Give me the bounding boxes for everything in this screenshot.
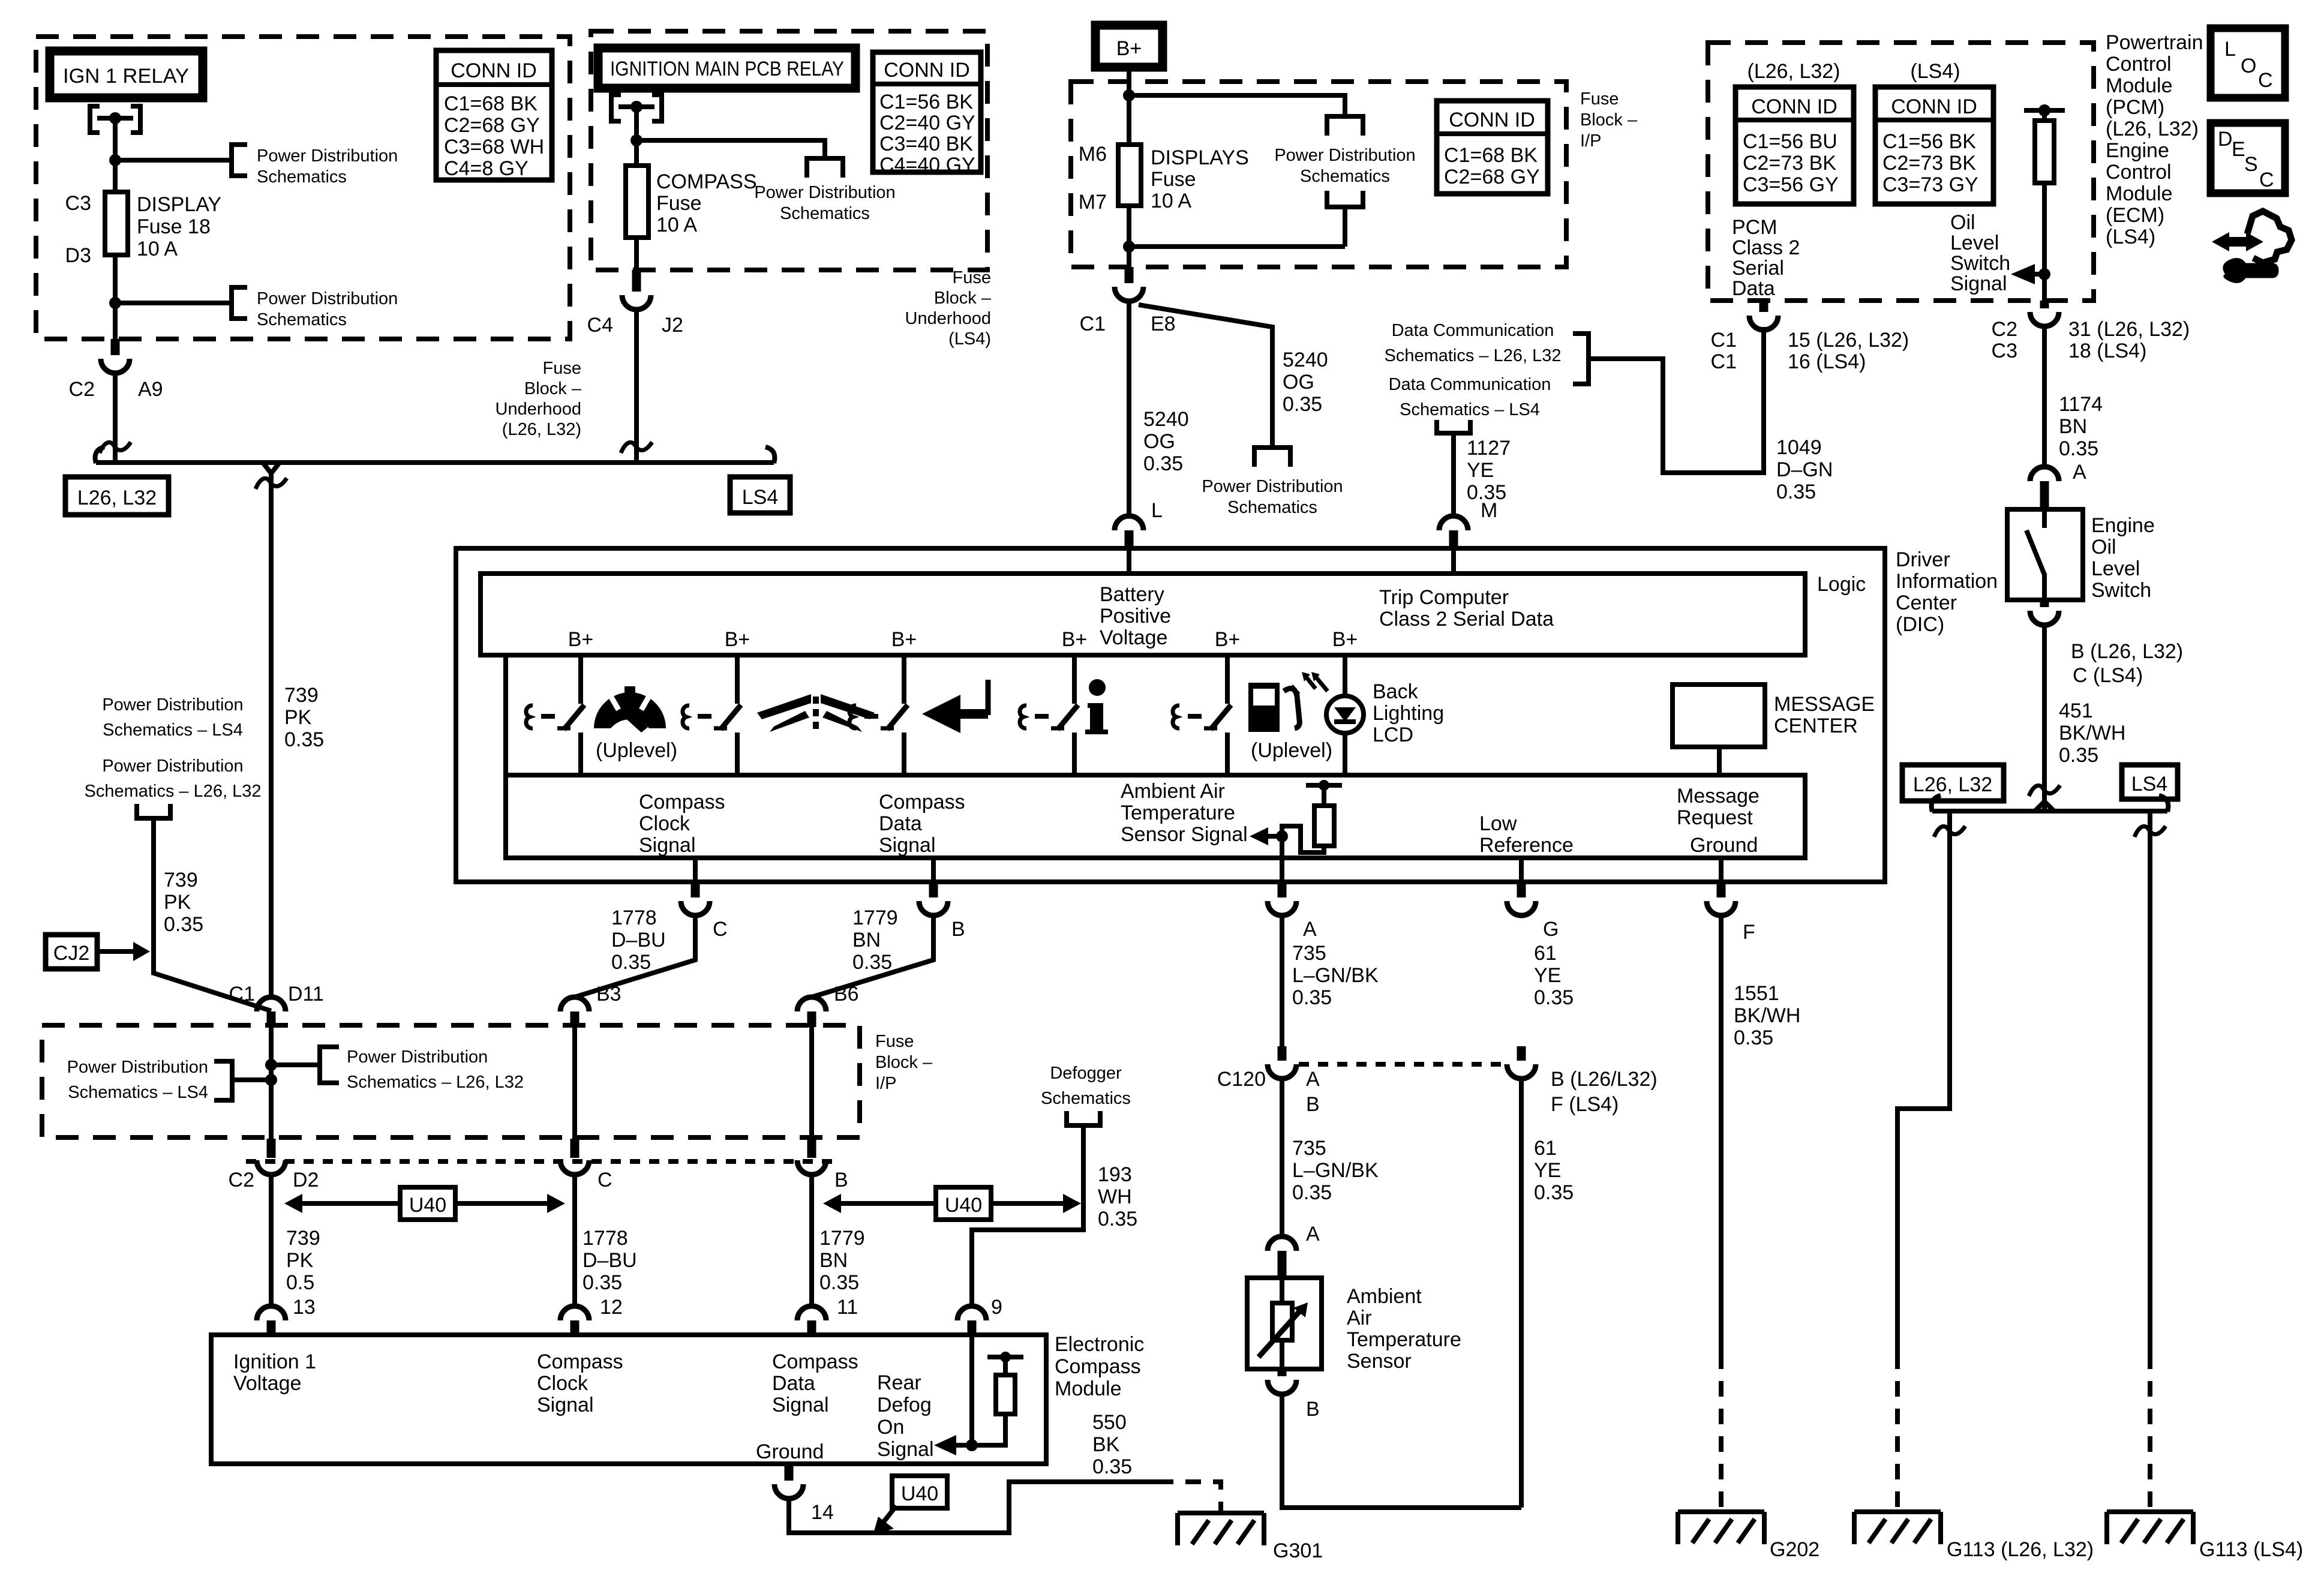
node [265, 1059, 277, 1071]
svg-text:Power Distribution: Power Distribution [257, 146, 398, 166]
wire pin 9 inside module [969, 1337, 974, 1445]
DIC pin G [1519, 858, 1524, 882]
node [265, 1074, 277, 1086]
svg-text:0.35: 0.35 [1143, 452, 1183, 475]
page ref bracket [320, 1047, 339, 1083]
svg-text:(L26, L32): (L26, L32) [1747, 60, 1840, 83]
svg-text:Compass: Compass [537, 1350, 623, 1373]
wire [634, 107, 639, 166]
svg-text:B: B [951, 918, 965, 941]
page ref bracket down [1254, 448, 1290, 467]
svg-text:Request: Request [1677, 806, 1753, 829]
svg-text:B+: B+ [568, 628, 594, 651]
svg-text:0.35: 0.35 [1283, 393, 1322, 416]
wire [634, 238, 639, 270]
wire sensor return loop [1282, 1394, 1521, 1508]
page ref bracket [214, 1061, 232, 1100]
svg-text:Data: Data [772, 1372, 815, 1395]
svg-text:B+: B+ [1062, 628, 1088, 651]
wire 1127 YE 0.35 [1451, 433, 1456, 516]
svg-text:Level: Level [2091, 557, 2140, 580]
svg-text:Rear: Rear [877, 1371, 921, 1394]
svg-text:CONN ID: CONN ID [1449, 109, 1535, 131]
svg-text:Ambient: Ambient [1347, 1285, 1422, 1308]
svg-text:B+: B+ [1116, 37, 1142, 60]
svg-text:0.35: 0.35 [1098, 1208, 1137, 1230]
svg-text:0.35: 0.35 [1092, 1455, 1132, 1478]
svg-text:CONN ID: CONN ID [1751, 95, 1837, 118]
svg-text:D2: D2 [293, 1169, 319, 1191]
fuse COMPASS [626, 166, 648, 238]
svg-text:Switch: Switch [2091, 579, 2151, 602]
fuse F18 DISPLAY [105, 192, 128, 255]
wire branch to power distribution 2 [115, 301, 230, 305]
wire 1551 to G202 [1719, 915, 1724, 1353]
svg-text:0.35: 0.35 [1776, 481, 1816, 503]
page ref bracket down [807, 158, 843, 178]
svg-text:C: C [713, 918, 728, 941]
svg-text:Signal: Signal [772, 1394, 829, 1416]
svg-text:(Uplevel): (Uplevel) [596, 739, 677, 762]
connector C1/D11 [257, 997, 286, 1011]
svg-text:Schematics – L26, L32: Schematics – L26, L32 [1384, 346, 1561, 365]
svg-text:Power Distribution: Power Distribution [1202, 477, 1343, 496]
svg-text:Signal: Signal [879, 834, 936, 857]
wire branch to power distribution [115, 158, 230, 163]
svg-text:C2=73 BK: C2=73 BK [1882, 152, 1976, 175]
wires through I/P block [271, 1027, 812, 1139]
wire 739 PK 0.35 main [269, 473, 274, 998]
svg-text:Compass: Compass [772, 1350, 858, 1373]
turn arrow icon [922, 680, 988, 733]
wire branch to power distribution [1129, 95, 1345, 115]
svg-text:5240: 5240 [1283, 349, 1328, 371]
wire branch right [271, 1062, 319, 1067]
merge chevron [263, 463, 280, 473]
svg-text:1551: 1551 [1734, 982, 1779, 1005]
svg-text:Ground: Ground [1690, 834, 1758, 857]
svg-text:1779: 1779 [819, 1227, 865, 1250]
svg-text:Voltage: Voltage [233, 1372, 301, 1395]
DIC pin label band box [506, 775, 1805, 858]
svg-text:12: 12 [600, 1296, 623, 1319]
wire oil level switch signal [2042, 183, 2047, 301]
svg-text:Trip Computer: Trip Computer [1379, 586, 1509, 609]
svg-text:Clock: Clock [537, 1372, 588, 1395]
connector pin B [807, 1139, 816, 1158]
svg-text:C3=40 BK: C3=40 BK [879, 133, 973, 155]
svg-text:1049: 1049 [1776, 436, 1822, 459]
wire break mark [100, 442, 131, 453]
U40 arrow 2 [823, 1194, 1081, 1213]
ignition main pcb relay dashed box [591, 31, 987, 270]
rear defog pullup resistor [972, 1352, 1023, 1445]
connector C2 pin A9 [111, 339, 120, 355]
DIC pin F [1719, 858, 1724, 882]
node [630, 134, 642, 146]
svg-text:A: A [1303, 918, 1317, 941]
svg-text:WH: WH [1098, 1185, 1132, 1208]
connector C2/C3 pins 31/18 [2040, 301, 2049, 308]
DIC pin A [1280, 858, 1284, 882]
svg-text:0.35: 0.35 [2059, 744, 2098, 767]
svg-text:0.35: 0.35 [1734, 1026, 1773, 1049]
svg-text:C1=56 BU: C1=56 BU [1743, 130, 1837, 153]
svg-text:C2: C2 [69, 378, 95, 401]
wire 735 L-GN/BK 0.35 [1280, 1079, 1284, 1236]
svg-text:Underhood: Underhood [905, 309, 992, 328]
page ref bracket right pair [1573, 334, 1589, 384]
wire [113, 373, 118, 463]
svg-text:0.35: 0.35 [1292, 1181, 1332, 1204]
svg-text:E8: E8 [1151, 313, 1176, 335]
svg-text:61: 61 [1534, 1137, 1557, 1160]
conn id table PCM L26 [1736, 87, 1854, 204]
ground G202 [1678, 1512, 1764, 1544]
oil level signal arrow [2011, 264, 2035, 284]
svg-text:YE: YE [1534, 964, 1561, 987]
svg-text:1778: 1778 [582, 1227, 628, 1250]
svg-text:Fuse: Fuse [543, 359, 581, 378]
node junction1 [109, 154, 121, 166]
svg-text:Module: Module [2106, 182, 2173, 205]
svg-text:Fuse: Fuse [656, 192, 702, 215]
svg-text:Sensor Signal: Sensor Signal [1121, 823, 1248, 846]
svg-text:Schematics: Schematics [1041, 1089, 1131, 1108]
connector B3 [560, 997, 589, 1011]
info icon [1085, 679, 1108, 734]
svg-text:Data: Data [879, 812, 922, 835]
svg-text:Schematics: Schematics [780, 204, 870, 223]
svg-text:B3: B3 [596, 983, 621, 1005]
wire return branch [1129, 207, 1345, 247]
svg-text:YE: YE [1534, 1159, 1561, 1182]
wire B to B6 [812, 915, 933, 997]
svg-text:Block –: Block – [524, 379, 582, 398]
connector C4 pin J2 [632, 270, 641, 292]
svg-text:Ambient Air: Ambient Air [1121, 780, 1225, 803]
svg-text:BK/WH: BK/WH [1734, 1004, 1800, 1027]
svg-text:13: 13 [293, 1296, 316, 1319]
dashed lead to G301 [1158, 1482, 1221, 1513]
svg-text:Temperature: Temperature [1121, 801, 1235, 824]
svg-text:Schematics – L26, L32: Schematics – L26, L32 [347, 1073, 524, 1092]
svg-text:Compass: Compass [879, 791, 965, 813]
node [1123, 241, 1135, 253]
relay K-main contact [611, 95, 662, 121]
switch S5 [1173, 656, 1231, 776]
switch S3 [849, 656, 908, 776]
svg-text:Control: Control [2106, 161, 2172, 184]
svg-text:193: 193 [1098, 1163, 1132, 1186]
ground G113 L26,L32 [1854, 1512, 1941, 1544]
svg-text:Module: Module [2106, 74, 2173, 97]
svg-text:G113 (LS4): G113 (LS4) [2199, 1538, 2303, 1561]
svg-text:D–BU: D–BU [611, 929, 666, 951]
svg-text:0.35: 0.35 [1534, 986, 1574, 1009]
svg-text:Module: Module [1055, 1377, 1122, 1400]
svg-text:A: A [1306, 1068, 1320, 1091]
wire 1174 BN 0.35 [2042, 326, 2047, 467]
wire [113, 255, 118, 339]
svg-text:Power Distribution: Power Distribution [67, 1058, 208, 1077]
svg-text:Positive: Positive [1100, 605, 1171, 628]
connector 11 [797, 1306, 826, 1320]
relay K-IGN1 contact [90, 106, 140, 133]
svg-text:Low: Low [1479, 812, 1517, 835]
svg-text:11: 11 [837, 1296, 858, 1319]
svg-text:B6: B6 [834, 983, 859, 1005]
connector 9 [957, 1306, 986, 1320]
svg-text:Voltage: Voltage [1100, 626, 1167, 649]
svg-text:Signal: Signal [1950, 272, 2007, 295]
CJ2 arrow [100, 949, 133, 954]
svg-text:18 (LS4): 18 (LS4) [2068, 340, 2146, 362]
ambient air temperature sensor [1247, 1278, 1322, 1369]
option tag LS4 [2122, 765, 2178, 799]
svg-text:C1: C1 [1080, 313, 1106, 335]
wire 193 WH 0.35 [972, 1125, 1083, 1306]
svg-text:A: A [1306, 1223, 1320, 1245]
svg-text:B: B [834, 1169, 848, 1191]
svg-text:0.35: 0.35 [1292, 986, 1332, 1009]
B+ power tag [1095, 25, 1163, 67]
IGN 1 RELAY label box [50, 51, 203, 98]
svg-text:B+: B+ [1215, 628, 1241, 651]
wire 451 BK/WH 0.35 [2042, 625, 2047, 811]
svg-text:Control: Control [2106, 53, 2172, 76]
option tag L26, L32 [1902, 765, 2004, 801]
svg-text:0.35: 0.35 [611, 951, 651, 974]
svg-text:C1=68 BK: C1=68 BK [444, 92, 538, 115]
wire 1779 BN 0.35 [809, 1175, 814, 1306]
svg-text:C1: C1 [1711, 329, 1737, 352]
connector row I/P short dash [246, 1159, 837, 1164]
wire 735 to C120 [1280, 915, 1284, 1046]
fuel pump icon [1248, 683, 1299, 732]
svg-text:YE: YE [1467, 459, 1494, 482]
wire 61 YE 0.35 [1519, 1079, 1524, 1508]
svg-text:Signal: Signal [639, 834, 696, 857]
svg-text:(LS4): (LS4) [1910, 60, 1960, 83]
svg-text:0.35: 0.35 [284, 728, 324, 751]
wire [634, 310, 639, 463]
svg-text:15 (L26, L32): 15 (L26, L32) [1788, 329, 1909, 352]
option tag LS4 [730, 477, 790, 513]
DIC outer box [456, 548, 1885, 882]
wire break mark [621, 442, 652, 453]
svg-text:C (LS4): C (LS4) [2073, 664, 2143, 687]
ground G301 [1178, 1513, 1264, 1545]
svg-text:B (L26/L32): B (L26/L32) [1551, 1068, 1658, 1091]
svg-text:Driver: Driver [1896, 548, 1950, 571]
connector 13 [257, 1306, 286, 1320]
svg-text:C: C [597, 1169, 612, 1191]
svg-text:Underhood: Underhood [496, 400, 582, 419]
rear defog arrow [955, 1443, 972, 1448]
svg-text:C2=40 GY: C2=40 GY [879, 112, 975, 134]
svg-text:Fuse: Fuse [875, 1032, 914, 1051]
page ref bracket up [1327, 191, 1363, 207]
wire 739 PK 0.5 [269, 1175, 274, 1306]
svg-text:Compass: Compass [639, 791, 725, 813]
svg-text:550: 550 [1092, 1411, 1127, 1434]
svg-text:1778: 1778 [611, 906, 657, 929]
page ref bracket up [1067, 1111, 1100, 1125]
svg-text:739: 739 [164, 869, 198, 891]
gauge icon [594, 686, 666, 733]
svg-text:G: G [1543, 918, 1559, 941]
svg-text:LS4: LS4 [742, 486, 779, 509]
node [966, 1439, 978, 1451]
svg-text:J2: J2 [662, 314, 683, 337]
svg-text:I/P: I/P [875, 1074, 896, 1093]
CONN ID table (underhood) [436, 50, 552, 180]
svg-text:C1: C1 [1711, 350, 1737, 373]
svg-text:0.35: 0.35 [1534, 1181, 1574, 1204]
svg-text:Ground: Ground [756, 1440, 824, 1463]
svg-text:0.35: 0.35 [582, 1271, 622, 1294]
svg-text:PK: PK [284, 706, 312, 729]
svg-text:L: L [2224, 38, 2236, 61]
svg-text:B+: B+ [725, 628, 750, 651]
svg-text:Temperature: Temperature [1347, 1328, 1461, 1351]
svg-text:Schematics: Schematics [1300, 167, 1390, 186]
svg-text:Clock: Clock [639, 812, 690, 835]
switch S1 [526, 656, 584, 776]
svg-text:B: B [1306, 1093, 1320, 1116]
conn id table (I/P) [1437, 101, 1548, 194]
U40 arrow 1 [284, 1194, 565, 1213]
svg-text:F: F [1743, 921, 1755, 944]
connector B (ambient sensor) [1278, 1369, 1287, 1376]
svg-text:C2: C2 [1992, 318, 2017, 341]
svg-text:Block –: Block – [875, 1053, 933, 1072]
svg-text:Battery: Battery [1100, 583, 1164, 606]
svg-text:10 A: 10 A [137, 238, 178, 260]
svg-text:M: M [1481, 499, 1497, 522]
engine oil level switch [2007, 509, 2083, 600]
svg-text:I/P: I/P [1580, 131, 1601, 151]
svg-text:(Uplevel): (Uplevel) [1251, 739, 1332, 762]
svg-text:Defog: Defog [877, 1394, 932, 1416]
splice tag CJ2 [46, 935, 97, 969]
svg-text:CENTER: CENTER [1774, 715, 1858, 737]
svg-text:Back: Back [1373, 680, 1419, 703]
svg-text:COMPASS: COMPASS [656, 170, 757, 193]
wire branch [636, 140, 825, 157]
svg-text:Reference: Reference [1479, 834, 1574, 857]
svg-text:Signal: Signal [537, 1394, 594, 1416]
svg-text:L: L [1151, 499, 1163, 522]
svg-text:735: 735 [1292, 1137, 1326, 1160]
connector C1 pins 15/16 [1759, 301, 1768, 312]
svg-text:C3=73 GY: C3=73 GY [1882, 173, 1978, 196]
svg-text:LCD: LCD [1373, 724, 1413, 746]
svg-text:0.35: 0.35 [2059, 437, 2098, 460]
svg-text:Class 2 Serial Data: Class 2 Serial Data [1379, 608, 1554, 631]
wire 1049 D-GN 0.35 [1761, 330, 1766, 473]
svg-text:C1=68 BK: C1=68 BK [1444, 144, 1538, 167]
svg-text:L26, L32: L26, L32 [1913, 773, 1992, 796]
svg-text:61: 61 [1534, 942, 1557, 965]
DESC tag [2211, 123, 2285, 193]
svg-text:Oil: Oil [2091, 536, 2116, 559]
svg-text:Fuse: Fuse [1151, 168, 1196, 191]
svg-text:Fuse: Fuse [1580, 89, 1619, 109]
svg-text:L–GN/BK: L–GN/BK [1292, 964, 1379, 987]
svg-text:C1: C1 [229, 983, 255, 1005]
svg-text:MESSAGE: MESSAGE [1774, 693, 1875, 716]
svg-text:C2=73 BK: C2=73 BK [1743, 152, 1836, 175]
svg-text:C3=56 GY: C3=56 GY [1743, 173, 1839, 196]
svg-text:(LS4): (LS4) [2106, 226, 2155, 248]
page ref bracket up [137, 804, 170, 818]
svg-text:BK/WH: BK/WH [2059, 722, 2125, 745]
svg-text:C4=8 GY: C4=8 GY [444, 157, 529, 180]
svg-text:G202: G202 [1770, 1538, 1819, 1561]
svg-text:Power Distribution: Power Distribution [1274, 146, 1415, 165]
svg-text:Power Distribution: Power Distribution [754, 183, 895, 202]
svg-text:BN: BN [852, 929, 881, 951]
connector B/C (oil switch) [2040, 600, 2049, 607]
svg-text:L–GN/BK: L–GN/BK [1292, 1159, 1379, 1182]
svg-text:C: C [2259, 169, 2274, 191]
fuse block I/P dashed box [1071, 82, 1566, 267]
svg-text:14: 14 [811, 1501, 834, 1524]
svg-text:1174: 1174 [2059, 393, 2103, 416]
svg-text:1779: 1779 [852, 906, 898, 929]
svg-text:B: B [1306, 1398, 1320, 1421]
DIC pin C [693, 858, 698, 882]
svg-text:L26, L32: L26, L32 [77, 487, 157, 509]
svg-text:Oil: Oil [1950, 211, 1975, 234]
page ref bracket down [1327, 116, 1363, 136]
connector 12 [560, 1306, 589, 1320]
svg-text:DISPLAY: DISPLAY [137, 193, 221, 216]
svg-text:Compass: Compass [1055, 1355, 1141, 1378]
svg-text:Defogger: Defogger [1050, 1064, 1122, 1083]
svg-text:C1=56 BK: C1=56 BK [879, 91, 973, 113]
ground G113 LS4 [2107, 1512, 2193, 1544]
svg-text:CONN ID: CONN ID [451, 59, 537, 82]
wire drop L26,L32 to G113 [1897, 811, 1950, 1353]
svg-text:C: C [2258, 69, 2273, 92]
svg-text:C3: C3 [1992, 340, 2017, 362]
svg-text:Engine: Engine [2106, 139, 2169, 162]
svg-text:Power Distribution: Power Distribution [347, 1047, 488, 1067]
wire branch 5240 OG 0.35 [1139, 305, 1272, 446]
option tag L26, L32 [65, 477, 169, 515]
svg-text:Power Distribution: Power Distribution [257, 289, 398, 308]
service manual icon [2212, 211, 2292, 281]
svg-text:A: A [2073, 461, 2086, 484]
svg-text:0.5: 0.5 [286, 1271, 314, 1294]
svg-text:Ignition 1: Ignition 1 [233, 1350, 316, 1373]
svg-text:S: S [2244, 153, 2258, 176]
svg-text:C3: C3 [65, 192, 91, 215]
connector row C120 dash [1299, 1062, 1505, 1067]
svg-text:C4=40 GY: C4=40 GY [879, 154, 975, 176]
svg-text:Message: Message [1677, 785, 1759, 807]
thermistor ambient temp in DIC [1250, 780, 1342, 858]
svg-text:5240: 5240 [1143, 408, 1189, 431]
svg-text:BN: BN [2059, 415, 2087, 438]
svg-text:OG: OG [1283, 371, 1314, 394]
svg-text:CONN ID: CONN ID [1891, 95, 1977, 118]
highway icon [757, 694, 875, 732]
page ref bracket up [1437, 420, 1470, 433]
